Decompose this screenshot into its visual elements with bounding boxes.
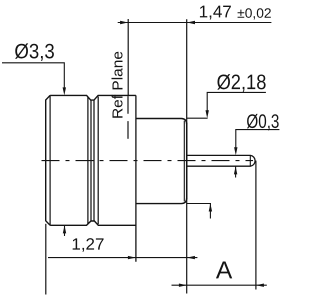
- arrow Ø2,18 bottom (up): [209, 204, 212, 212]
- Ø3,3 leader: [2, 63, 64, 89]
- arrow 1,47 right (left-pointing, outside): [187, 21, 195, 24]
- svg-text:A: A: [216, 257, 233, 284]
- svg-text:Ref Plane: Ref Plane: [110, 51, 127, 119]
- fillet tangent line on disc face: [183, 121, 185, 202]
- disc face / extension line (full height, 1,47 + A + 1,27 reference): [186, 19, 188, 293]
- svg-text:1,27: 1,27: [71, 236, 104, 254]
- ref plane extension line (solid above body): [127, 19, 129, 95]
- body right face, extended down as extension line: [135, 95, 137, 261]
- arrow A left (right-pointing): [179, 284, 187, 287]
- svg-text:Ø3,3: Ø3,3: [14, 40, 54, 63]
- middle cylinder Ø2,18: [136, 119, 187, 125]
- arrow A right (left-pointing): [256, 284, 264, 287]
- arrow Ø0,3 bottom (up): [234, 166, 237, 174]
- body left face with chamfers: [46, 95, 50, 225]
- dimension line A: [172, 284, 267, 286]
- dimension line 1,27 (bottom, body face to disc face): [48, 257, 197, 259]
- arrow 1,47 left (right-pointing, outside): [120, 21, 128, 24]
- dimension line 1,47: [118, 22, 272, 24]
- ref plane dashed line through body: [127, 96, 129, 145]
- svg-text:Ø0,3: Ø0,3: [246, 111, 279, 133]
- disc face silhouette (thicker within part): [186, 123, 188, 199]
- chamfer edge circle: [49, 96, 51, 225]
- Ø2,18 bottom arrow tail: [209, 204, 211, 219]
- arrow 1,27 right (left-pointing at disc face): [187, 256, 195, 259]
- Ø2,18 diameter stub top: [187, 117, 208, 119]
- arrow Ø3,3 bottom (up): [63, 225, 66, 233]
- Ø2,18 diameter stub bottom: [187, 203, 211, 205]
- arrow Ø2,18 top (down): [206, 110, 209, 118]
- Ø2,18 leader: [207, 92, 266, 111]
- pin tip extension line: [255, 161, 257, 290]
- body outline: large cylinder Ø3,3: [50, 95, 136, 100]
- arrow Ø0,3 (down): [234, 147, 237, 155]
- svg-text:1,47: 1,47: [199, 2, 232, 21]
- pin Ø0,3 with rounded tip: [187, 155, 255, 166]
- pin tip tangent line: [249, 156, 251, 166]
- arrow Ø3,3 top (down): [63, 87, 66, 95]
- left lower extension line: [45, 224, 47, 295]
- svg-text:Ø2,18: Ø2,18: [217, 71, 267, 94]
- arrow 1,27 left (right-pointing at body face): [128, 256, 136, 259]
- Ø3,3 bottom arrow tail: [64, 225, 66, 236]
- groove edge lines: [87, 97, 89, 224]
- svg-text:±0,02: ±0,02: [237, 6, 271, 21]
- centerline (dash-dot): [42, 160, 254, 162]
- Ø0,3 leader: [236, 130, 280, 149]
- Ø0,3 bottom arrow tail: [235, 166, 237, 177]
